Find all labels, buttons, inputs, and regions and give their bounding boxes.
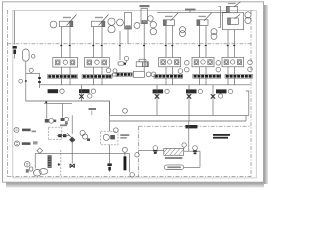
cooler E-103 inner: [228, 14, 240, 24]
wire vessel outlet: [25, 61, 27, 87]
label over header: [89, 108, 97, 115]
instrument circle beside V-2: [148, 16, 154, 22]
tank left wall: [34, 154, 36, 169]
instrument circle over header: [123, 108, 128, 113]
instrument circle on battery limit: [135, 153, 139, 157]
pump P-3 symbol: [103, 134, 115, 140]
page drop shadow right: [264, 5, 268, 184]
wire left standpipe: [71, 115, 73, 133]
tag K-102B label: [186, 89, 203, 93]
small icon beside 237: [33, 141, 38, 144]
wire drop C column: [156, 85, 158, 116]
cooler E-102B: [197, 13, 212, 25]
valve on branch: [38, 77, 41, 83]
instrument circles pair below D: [211, 29, 217, 35]
wire P-3 drop: [109, 121, 111, 172]
wire cooler B drops: [94, 27, 103, 58]
flow arrows at limit crossings: [60, 45, 235, 46]
wire cooler A drops: [62, 27, 71, 58]
battery limit dash-dot vertical: [138, 126, 140, 177]
compressor unit K-102B: [192, 57, 214, 74]
instrument circle below header: [113, 128, 118, 133]
terminal strip K-102A: [154, 74, 183, 78]
compressor unit K-101A: [53, 58, 78, 75]
instrument circle beside valve E: [218, 94, 222, 98]
heating element ladder: [48, 156, 51, 168]
support bracket: [218, 6, 220, 27]
instrument circle at V-1: [134, 23, 140, 29]
text 237 label: [22, 142, 31, 145]
instrument circle LI-237: [15, 141, 20, 146]
central skid: twin circles: [146, 72, 151, 77]
text beside P-3: [120, 134, 129, 136]
text below P-3: [120, 137, 127, 139]
terminal strip central: [116, 73, 132, 77]
wire strip-to-collector drops: [62, 78, 235, 85]
terminal strip K-103: [225, 74, 253, 78]
instrument circle right of K-102A: [178, 69, 183, 74]
terminal strip K-101A: [48, 75, 78, 79]
valve pair on drain line: [58, 134, 66, 137]
cooler E-103 top: [227, 2, 241, 13]
wire heater feed riser: [188, 121, 190, 151]
wire heater outlet loop: [184, 151, 200, 167]
cooler E-101A: [60, 15, 77, 27]
valve on inlet: [153, 150, 157, 154]
instrument circles pair between D and E: [216, 61, 221, 66]
wire standpipe to tank: [71, 142, 73, 164]
terminal strip K-102B: [193, 74, 221, 78]
note stadium label: [164, 165, 183, 170]
text 236 label: [22, 129, 31, 132]
enclosure box K-3: [222, 13, 243, 30]
compressor unit K-102A: [159, 57, 181, 74]
battery limit dash-dot right: [250, 10, 252, 177]
pump P-2: [29, 167, 48, 176]
top header pipe: [157, 11, 227, 13]
instrument circle tank corner: [130, 172, 135, 177]
instrument circles pair at right limit: [248, 60, 253, 65]
battery limit dash-dot bottom: [7, 176, 251, 178]
valve on P-3 drop: [107, 163, 111, 170]
wire drop E column: [212, 85, 214, 116]
outer sheet border: [3, 2, 264, 182]
instrument circles pair between C and D: [185, 61, 190, 66]
text above dashed box: [60, 124, 67, 126]
instrument circles pair below C: [180, 27, 186, 33]
instrument circle on heater top: [182, 143, 186, 149]
label on header: [185, 9, 196, 11]
pump P-1 cluster: [45, 118, 56, 123]
instrument circle lower left: [19, 79, 23, 83]
inner drawing frame: [13, 10, 256, 178]
vessel V-100 capsule: [23, 49, 30, 61]
valve heater outlet: [193, 150, 197, 154]
compressor unit K-101B: [85, 58, 110, 75]
text small sub label: [32, 131, 37, 133]
dashed box P-1: [48, 127, 62, 140]
valve on standpipe: [70, 164, 74, 168]
valve cluster upper: [61, 117, 69, 124]
tank right wall: [129, 154, 131, 173]
tag K-101A label: [48, 89, 65, 93]
wire heater inlet: [139, 150, 164, 152]
instrument circles pair TI/PI: [108, 18, 115, 25]
thermowell bar: [122, 147, 127, 170]
instrument circle right of K-101B: [106, 68, 111, 73]
central skid: mini rects: [113, 73, 118, 76]
battery limit text on line: [185, 125, 197, 128]
tag K-101B label: [79, 89, 96, 93]
central skid: instrument circle small: [113, 69, 117, 73]
junction dot on tank: [58, 163, 60, 165]
page drop shadow bottom: [6, 183, 264, 188]
wire central risers: [120, 44, 144, 71]
instrument circle heater outlet: [193, 146, 198, 151]
terminal strip K-101B: [82, 75, 112, 79]
central skid: dark block: [124, 63, 126, 65]
wire top-left feed line: [14, 11, 16, 59]
diagonal actuator line: [67, 133, 75, 141]
wire drop D column: [188, 85, 190, 121]
tag K-102A label: [153, 89, 170, 93]
suction header pipe: [110, 114, 249, 116]
central skid: aux box: [133, 71, 144, 77]
valve below C: [155, 94, 159, 98]
instrument circle beside valve A: [88, 94, 92, 98]
discharge header pipe: [110, 91, 249, 121]
vent diamond on tank: [37, 148, 43, 154]
dashed box P-3: [101, 131, 119, 145]
central skid: finned exchanger: [136, 59, 148, 66]
instrument circles pair right of box: [245, 12, 251, 18]
valve below D: [187, 94, 191, 98]
wire drain line: [57, 135, 70, 137]
valve PV-01 on top-left feed: [13, 46, 17, 54]
instrument circles pair left of C: [150, 22, 156, 28]
central skid: small drum: [118, 62, 124, 65]
wire V-1 drop: [120, 29, 128, 44]
instrument circle FI-236: [14, 127, 19, 132]
flange circle on inlet: [153, 146, 158, 151]
wire V-2 drop: [143, 24, 145, 58]
tank top line: [35, 153, 129, 155]
wire cooler C drops: [166, 26, 173, 58]
central skid: instrument circle: [124, 56, 128, 60]
wire drop A valve column: [81, 85, 83, 101]
instrument circles cluster: [80, 130, 85, 135]
tag box loop: [26, 88, 110, 116]
cooler E-101B: [92, 15, 109, 27]
wire cluster drops: [44, 103, 72, 118]
small block under circles: [87, 138, 90, 141]
wire outlet branch: [26, 73, 40, 88]
collector line under units: [40, 84, 250, 86]
note text block right: [213, 134, 230, 139]
main dash-dot header line: [7, 43, 251, 45]
valve below E: [211, 94, 215, 98]
wire E drops: [228, 30, 235, 58]
tick on header: [189, 11, 191, 13]
compressor unit K-103: [222, 57, 244, 74]
instrument circle TI tank: [24, 161, 30, 172]
vessel V-1: [125, 13, 132, 30]
cooler E-102A: [164, 13, 179, 25]
battery limit dash-dot mid: [139, 125, 252, 127]
instrument circle on outlet: [29, 68, 33, 72]
vessel V-2: [140, 5, 150, 24]
wire cooler D drops: [200, 26, 207, 58]
electric heater E-104: [164, 148, 184, 155]
instrument circle FI: [117, 19, 124, 26]
heater label text: [165, 157, 183, 159]
battery limit dash-dot left: [6, 10, 8, 177]
dashed drain vertical: [60, 150, 62, 177]
instrument circle at vessel: [31, 55, 35, 59]
junction dot: [25, 80, 27, 82]
instrument circle PI-101: [50, 21, 57, 28]
valve below A: [79, 94, 83, 98]
tag K-103 label: [216, 89, 233, 93]
control valve CV-1: [69, 137, 75, 143]
